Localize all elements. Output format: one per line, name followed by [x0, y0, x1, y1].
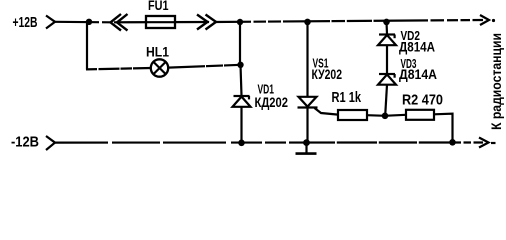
wire zener chain top — [385, 22, 388, 34]
node top output arrow — [480, 15, 489, 25]
node B top rail / VD1 branch — [237, 19, 243, 25]
svg-text:+12В: +12В — [13, 14, 38, 31]
wire node to R2 — [387, 114, 406, 117]
svg-text:Д814А: Д814А — [399, 66, 437, 82]
node D zener chain top junction — [383, 19, 390, 26]
wire VD1 to bottom rail — [240, 107, 242, 143]
wire R1 to node — [367, 114, 383, 117]
node +12V input connector — [46, 16, 55, 29]
zener diode VD3 — [378, 74, 396, 85]
node bottom output arrow — [479, 138, 489, 148]
svg-text:Д814А: Д814А — [399, 39, 435, 55]
wire top rail left — [55, 21, 110, 24]
node A top-left junction — [86, 19, 92, 25]
scan-style dash gaps over wires — [97, 17, 474, 146]
node G VD1 bottom junction — [238, 140, 245, 147]
resistor R2 — [406, 110, 434, 120]
wire R2 to bottom rail — [434, 114, 453, 143]
node E lamp / VD1 junction — [237, 62, 243, 68]
wire between VD2 and VD3 — [386, 45, 388, 73]
fuse holder chevrons right — [197, 15, 208, 30]
thyristor VS1 — [298, 97, 339, 115]
node F gate R1/R2/VD3 junction — [382, 113, 389, 120]
svg-text:КД202: КД202 — [255, 94, 289, 110]
fuse FU1 — [146, 16, 175, 28]
wire junction to diode — [241, 65, 242, 96]
fuse holder chevrons left — [111, 14, 122, 31]
svg-text:-12В: -12В — [11, 134, 39, 151]
wire VD1 branch from top rail — [239, 22, 241, 65]
node I R2 bottom junction — [449, 139, 456, 146]
wire top rail right — [214, 20, 483, 22]
wire thyristor cathode to bottom rail — [306, 108, 308, 143]
svg-text:HL1: HL1 — [146, 44, 169, 60]
wire bottom rail — [55, 141, 483, 143]
zener diode VD2 — [378, 35, 396, 46]
resistor R1 — [338, 110, 367, 120]
wire top rail middle (through fuse) — [114, 21, 209, 23]
svg-text:FU1: FU1 — [148, 0, 169, 13]
wire lamp to junction — [168, 65, 241, 68]
node H thyristor cathode junction — [303, 139, 310, 146]
wire VD3 to gate node — [385, 85, 387, 114]
lamp HL1 — [151, 59, 168, 76]
node C thyristor anode junction — [304, 19, 311, 26]
ground — [296, 143, 317, 154]
node -12V input connector — [46, 136, 55, 150]
svg-text:R1 1k: R1 1k — [332, 89, 362, 106]
diode VD1 — [233, 96, 251, 107]
svg-text:R2 470: R2 470 — [402, 92, 443, 109]
svg-text:КУ202: КУ202 — [312, 66, 343, 82]
wire lamp branch vertical left — [86, 22, 88, 70]
wire thyristor anode — [306, 22, 308, 97]
wire lamp branch horizontal — [86, 68, 151, 69]
svg-text:К радиостанции: К радиостанции — [489, 33, 504, 130]
